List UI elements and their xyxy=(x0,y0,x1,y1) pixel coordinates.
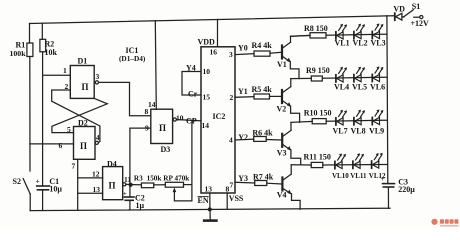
svg-text:EN: EN xyxy=(198,196,209,205)
svg-text:+12V: +12V xyxy=(411,19,430,28)
svg-text:Y4: Y4 xyxy=(186,63,196,72)
svg-text:3: 3 xyxy=(96,72,100,81)
potentiometer RP xyxy=(165,182,183,187)
wire VDD to rail xyxy=(217,20,219,47)
wire LED row3 xyxy=(291,121,312,122)
svg-text:VDD: VDD xyxy=(198,37,216,46)
wire RP right terminal xyxy=(184,184,192,186)
node junction dot D4 out xyxy=(129,183,132,186)
wire Y1 row xyxy=(235,96,254,99)
svg-text:Cr: Cr xyxy=(188,90,198,99)
capacitor C3 xyxy=(383,183,395,185)
IC2 box xyxy=(201,47,235,193)
svg-text:14: 14 xyxy=(148,100,156,109)
svg-text:2: 2 xyxy=(230,93,234,102)
svg-text:9: 9 xyxy=(145,124,149,133)
resistor R9 xyxy=(311,76,322,81)
wire V2 collector to row2 xyxy=(290,79,292,87)
wire LED row2 xyxy=(291,77,312,79)
resistor R1 xyxy=(27,43,33,57)
node D2 pin4 bubble xyxy=(95,141,98,144)
svg-text:VL7: VL7 xyxy=(333,127,348,136)
wire Y3 row xyxy=(235,181,255,184)
wire cross-couple D1 out to D2 pin 5 xyxy=(52,98,107,132)
svg-text:Π: Π xyxy=(82,82,89,92)
svg-text:R10 150: R10 150 xyxy=(304,109,332,118)
svg-text:Y3: Y3 xyxy=(238,174,248,183)
svg-text:D4: D4 xyxy=(107,159,117,168)
svg-text:12: 12 xyxy=(92,169,100,178)
svg-text:VL4: VL4 xyxy=(334,83,349,92)
LED VL9 xyxy=(372,109,383,124)
resistor R7 xyxy=(255,181,267,186)
LED VL8 xyxy=(354,110,365,125)
resistor R6 xyxy=(254,137,267,142)
svg-text:R6 4k: R6 4k xyxy=(252,129,273,138)
svg-text:470k: 470k xyxy=(175,174,190,182)
wire D3 pin 14 to rail xyxy=(155,21,156,109)
svg-text:220μ: 220μ xyxy=(398,185,415,194)
LED VL5 xyxy=(354,67,365,82)
LED VL2 xyxy=(354,24,365,39)
svg-text:16: 16 xyxy=(210,47,218,56)
wire D1 pin3 to D3 pin 8 xyxy=(99,82,151,115)
node D1 pin3 bubble xyxy=(95,81,98,84)
svg-text:Y1: Y1 xyxy=(238,87,248,96)
transistor V4 xyxy=(277,174,292,199)
svg-text:13: 13 xyxy=(93,185,101,194)
watermark logo xyxy=(431,219,458,227)
svg-text:D1: D1 xyxy=(78,56,88,65)
LED VL11 xyxy=(353,153,364,168)
svg-text:VL3: VL3 xyxy=(371,39,386,48)
svg-text:R7 4k: R7 4k xyxy=(253,172,274,181)
wire D4 output node to R3 xyxy=(126,183,141,185)
wire V2 emitter jog to row3 xyxy=(291,106,300,122)
wire V1 emitter jog to row2 xyxy=(290,62,299,79)
svg-text:Y2: Y2 xyxy=(238,133,248,142)
svg-text:100k: 100k xyxy=(10,49,27,58)
svg-text:RP: RP xyxy=(163,174,173,182)
svg-text:1μ: 1μ xyxy=(136,201,145,210)
wire Y0 row xyxy=(235,54,254,55)
svg-text:D2: D2 xyxy=(78,118,88,127)
svg-text:+: + xyxy=(36,177,40,186)
wire V1 collector to row1 xyxy=(291,35,311,42)
svg-text:V1: V1 xyxy=(277,60,287,69)
svg-text:R9 150: R9 150 xyxy=(306,66,330,75)
LED VL10 xyxy=(335,153,346,168)
svg-text:VSS: VSS xyxy=(229,194,244,203)
svg-text:D3: D3 xyxy=(161,145,171,154)
gate D2 xyxy=(74,127,96,160)
svg-text:VL6: VL6 xyxy=(370,83,385,92)
wire R2 column from rail xyxy=(41,23,43,39)
node D4 pin11 bubble xyxy=(123,183,126,186)
svg-text:(D1–D4): (D1–D4) xyxy=(119,54,146,63)
resistor R3 xyxy=(141,183,153,188)
svg-text:Y0: Y0 xyxy=(238,44,248,53)
svg-text:VL10: VL10 xyxy=(332,172,349,180)
svg-text:R4 4k: R4 4k xyxy=(252,41,273,50)
capacitor C2 xyxy=(124,196,134,198)
svg-text:VD: VD xyxy=(393,5,405,14)
ground xyxy=(209,210,211,220)
wire ground bus bottom xyxy=(30,208,390,210)
svg-text:10: 10 xyxy=(176,113,184,122)
wire R2 bottom down to C1 xyxy=(42,52,44,186)
svg-text:10μ: 10μ xyxy=(49,185,62,194)
svg-text:7: 7 xyxy=(72,161,76,170)
wire LED row4 xyxy=(291,164,311,166)
resistor R2 xyxy=(40,39,46,52)
transistor V3 xyxy=(277,130,292,157)
svg-text:VL1: VL1 xyxy=(335,39,350,48)
svg-text:R3: R3 xyxy=(134,174,143,182)
wire CP line D3 pin10 to IC2 pin 14 xyxy=(176,120,201,121)
resistor R4 xyxy=(254,51,270,56)
svg-text:6: 6 xyxy=(59,141,63,150)
gate D3 xyxy=(151,109,173,143)
svg-text:IC2: IC2 xyxy=(213,112,226,121)
svg-text:15: 15 xyxy=(203,93,211,102)
svg-text:150k: 150k xyxy=(147,174,162,182)
svg-text:7: 7 xyxy=(230,180,234,189)
resistor R10 xyxy=(312,119,326,124)
svg-text:S2: S2 xyxy=(13,177,21,186)
svg-text:VL12: VL12 xyxy=(369,172,386,180)
LEDs xyxy=(332,23,386,180)
wire right bus xyxy=(386,16,389,183)
wire node pin6 (R1 column to D2 pin 6) xyxy=(30,143,74,145)
svg-text:Π: Π xyxy=(80,141,87,151)
svg-text:8: 8 xyxy=(226,184,230,193)
svg-text:V4: V4 xyxy=(277,190,287,199)
LED VL4 xyxy=(336,67,347,82)
wire VSS pin to bus xyxy=(226,193,228,209)
wire V4 emitter jog to ground bus xyxy=(292,194,301,210)
svg-text:10k: 10k xyxy=(45,48,58,57)
gate D4 xyxy=(103,167,123,200)
wire D3 pin 9 from node xyxy=(130,128,151,184)
wire C2 top to node / bottom to bus xyxy=(129,185,131,197)
transistor V1 xyxy=(277,42,291,69)
svg-text:R11 150: R11 150 xyxy=(304,152,331,161)
wire D1 pin 2 cross-couple from D2 pin 4 xyxy=(52,90,100,141)
LED VL3 xyxy=(372,23,383,38)
svg-text:V2: V2 xyxy=(277,105,287,114)
svg-text:4: 4 xyxy=(96,133,100,142)
svg-text:Π: Π xyxy=(159,123,166,133)
wire D1 pin 1 xyxy=(43,74,71,76)
resistor R11 xyxy=(311,162,323,167)
node D3 pin10 bubble xyxy=(173,118,176,121)
LED VL7 xyxy=(336,110,347,125)
capacitor C1 xyxy=(37,185,50,187)
svg-text:1: 1 xyxy=(63,66,67,75)
resistor R5 xyxy=(254,94,270,99)
wire V3 collector to row3 xyxy=(290,122,292,130)
wire V4 collector to row4 xyxy=(290,165,292,174)
svg-text:10: 10 xyxy=(203,67,211,76)
svg-text:R5 4k: R5 4k xyxy=(252,85,273,94)
wire top supply rail xyxy=(30,16,395,24)
transistor V2 xyxy=(277,87,292,114)
wire EN pin to ground xyxy=(209,193,211,210)
wire D2 pin 7 to ground bus xyxy=(77,159,79,209)
wire Y4-Cr loop xyxy=(182,72,201,96)
wire V3 emitter jog to row4 xyxy=(291,150,301,165)
svg-text:VL9: VL9 xyxy=(369,127,384,136)
svg-text:VL5: VL5 xyxy=(352,83,367,92)
resistor R8 xyxy=(310,33,326,38)
svg-text:2: 2 xyxy=(65,82,69,91)
svg-text:VL8: VL8 xyxy=(351,127,366,136)
wire R1 bottom to S2 xyxy=(29,57,31,172)
svg-text:+: + xyxy=(123,190,127,197)
LED VL6 xyxy=(372,66,383,81)
LED VL1 xyxy=(336,24,347,39)
wire left column top (to R1) xyxy=(29,24,31,44)
wire RP wiper loop xyxy=(174,191,192,201)
svg-text:3: 3 xyxy=(229,50,233,59)
svg-text:4: 4 xyxy=(229,136,233,145)
wire Y2 row xyxy=(235,138,254,141)
LED VL12 xyxy=(372,153,383,168)
svg-text:R8 150: R8 150 xyxy=(304,24,328,33)
svg-text:V3: V3 xyxy=(277,148,287,157)
wire C1 to ground bus xyxy=(42,190,44,211)
svg-text:14: 14 xyxy=(202,121,210,130)
svg-text:5: 5 xyxy=(67,125,71,134)
svg-text:VL11: VL11 xyxy=(350,172,367,180)
wire RP feedback vertical to CP xyxy=(191,120,193,201)
svg-text:Π: Π xyxy=(109,181,116,191)
wire R3 to RP xyxy=(154,184,166,186)
wire D4 pin 12 xyxy=(78,177,103,179)
svg-text:VL2: VL2 xyxy=(353,39,368,48)
gate D1 xyxy=(70,66,94,99)
svg-text:13: 13 xyxy=(205,184,213,193)
wire D4 pin 13 xyxy=(78,192,103,194)
wire LED row1 xyxy=(291,34,311,37)
